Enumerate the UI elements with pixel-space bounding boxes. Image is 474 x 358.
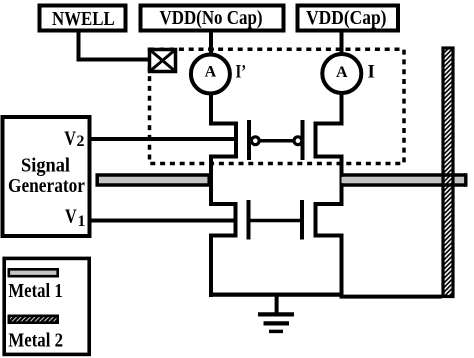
svg-text:I’: I’ xyxy=(236,62,247,83)
node bus left upper xyxy=(209,155,213,207)
node bus left lower xyxy=(209,234,213,298)
junction dot at VDD(No Cap) wire crossing xyxy=(208,46,214,52)
ground rail right xyxy=(340,295,442,299)
box Signal Generator xyxy=(3,117,90,236)
metal1 right segment borders xyxy=(342,173,466,177)
ground rail left xyxy=(209,293,344,297)
gate wire between MOS cap gates xyxy=(249,219,303,223)
transistor M2 (right PMOS) xyxy=(294,120,344,160)
svg-text:Metal 2: Metal 2 xyxy=(8,329,63,351)
node bus right upper xyxy=(340,155,344,207)
wire ammeter I to PMOS M2 xyxy=(340,93,344,126)
wire VDD(Cap) down to ammeter xyxy=(340,32,344,55)
svg-text:2: 2 xyxy=(77,133,85,150)
metal1 bus left segment xyxy=(97,175,209,185)
svg-text:V: V xyxy=(64,128,76,150)
svg-text:A: A xyxy=(336,64,348,81)
svg-text:1: 1 xyxy=(78,213,86,230)
svg-text:Signal: Signal xyxy=(21,155,70,177)
ground xyxy=(258,295,294,332)
svg-text:VDD(Cap): VDD(Cap) xyxy=(306,7,386,29)
gate wire between PMOS bubbles xyxy=(260,139,294,143)
capacitor C2 (right MOS cap) xyxy=(302,200,344,240)
svg-text:I: I xyxy=(368,62,375,83)
legend metal2 swatch xyxy=(9,316,58,323)
box NWELL xyxy=(40,6,126,31)
nwell pad (crossed box) xyxy=(150,50,176,72)
metal1 right end cap xyxy=(464,173,467,187)
wire V2 to M1 body xyxy=(92,137,239,141)
dashed boundary box xyxy=(150,49,405,163)
svg-text:Metal 1: Metal 1 xyxy=(8,280,62,302)
transistor M1 (left PMOS) xyxy=(209,120,259,160)
metal1 bus right segment xyxy=(342,177,442,184)
node bus right lower xyxy=(340,234,344,298)
wire VDD(No Cap) down to ammeter xyxy=(209,32,213,55)
legend metal1 swatch xyxy=(9,269,58,276)
ammeter A (I') xyxy=(191,55,230,94)
svg-text:A: A xyxy=(205,63,217,80)
metal1 stub right of metal2 xyxy=(455,177,466,184)
legend box xyxy=(4,258,89,354)
svg-text:Generator: Generator xyxy=(8,175,85,197)
metal2 vertical bus xyxy=(443,48,453,297)
svg-text:V: V xyxy=(65,206,77,228)
box VDD(No Cap) xyxy=(141,6,284,31)
capacitor C1 (left MOS cap) xyxy=(209,200,249,240)
wire ammeter I' to PMOS M1 xyxy=(209,93,213,126)
wire V1 to C1 body xyxy=(92,219,238,223)
ammeter A (I) xyxy=(322,54,361,93)
box VDD(Cap) xyxy=(298,6,399,31)
svg-text:NWELL: NWELL xyxy=(52,8,115,30)
svg-text:VDD(No Cap): VDD(No Cap) xyxy=(160,7,263,29)
wire NWELL to nwell-pad xyxy=(79,32,149,60)
